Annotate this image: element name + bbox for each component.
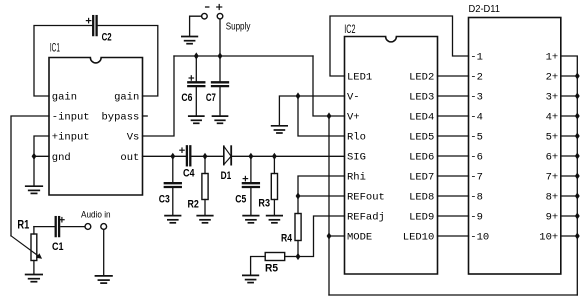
label R4 [281,233,293,245]
terminal supply minus [202,13,208,19]
capacitor C1 [56,217,64,236]
ground V- [272,126,288,133]
LED driver IC2 box [345,37,438,275]
label minus polarity [206,6,209,8]
svg-text:D1: D1 [221,170,232,182]
wires D2-D11 pins 2+ to 10+ to cathode rail [561,76,578,236]
wire supply rail [174,55,313,57]
label Audio in [81,209,111,219]
svg-text:-9: -9 [470,212,483,224]
wire bottom rail [329,294,577,296]
ground supply minus [182,37,198,44]
wire supply minus to ground [190,16,202,36]
svg-text:-2: -2 [470,72,483,84]
junction rail C7 [218,52,223,59]
svg-text:R2: R2 [188,199,199,211]
D2-D11 left pin labels -1 to -10 [470,52,489,244]
svg-text:Vs: Vs [127,132,140,144]
svg-text:gain: gain [52,92,77,104]
IC2 right pin labels LED2-LED10 [403,72,435,244]
svg-text:LED5: LED5 [409,132,434,144]
diode D1 [224,146,231,164]
label C1 [52,241,64,253]
label C3 [159,194,170,206]
wire IC1 gain-left to C2 [34,26,93,97]
svg-text:9+: 9+ [546,212,559,224]
terminal audio-in signal [85,224,91,230]
svg-text:-input: -input [52,112,90,124]
svg-text:LED2: LED2 [409,72,434,84]
svg-text:1+: 1+ [546,52,559,64]
svg-text:C6: C6 [181,92,192,104]
wire MODE node down to bottom rail [328,116,330,295]
label C2 [102,32,112,44]
wire rail to IC1 Vs [143,56,175,136]
resistor R3 [271,156,277,215]
label D1 [221,170,232,182]
label plus polarity [217,5,222,10]
svg-text:6+: 6+ [546,152,559,164]
svg-text:bypass: bypass [101,112,139,124]
svg-text:IC2: IC2 [344,22,355,36]
svg-text:V+: V+ [347,112,360,124]
junction MODE node [327,232,332,239]
D2-D11 right pin labels 1+ to 10+ [539,52,558,244]
terminal audio-in return [101,224,107,230]
ground R1 [26,275,43,282]
junction R2 node [203,153,208,160]
svg-text:C3: C3 [159,194,170,206]
junctions on cathode rail [575,72,580,239]
svg-text:out: out [120,152,139,164]
junction V+ MODE node [327,112,332,119]
wire supply plus to rail [219,19,221,56]
svg-text:-7: -7 [470,172,483,184]
wire C4 to D1 [191,155,224,157]
wire IC2 LED1 to D2-D11 pin -1 [330,16,469,76]
capacitor C7 [212,56,228,116]
ground C7 [213,116,228,123]
svg-text:SIG: SIG [347,152,366,164]
label IC1 [50,41,60,55]
wire R1 top to C1 [34,226,55,228]
label R2 [188,199,199,211]
junction R3 node [272,153,277,160]
wire D1 to IC2 SIG [231,155,344,157]
svg-text:C7: C7 [206,92,216,104]
IC1 bypass pin tick [143,115,148,117]
IC1 left pin labels gain -input +input gnd [52,92,90,164]
svg-text:R4: R4 [281,233,293,245]
svg-text:LED4: LED4 [409,112,434,124]
capacitor C5 [243,156,259,215]
svg-text:8+: 8+ [546,192,559,204]
svg-text:IC1: IC1 [50,41,60,55]
op-amp IC1 amplifier box [49,58,143,196]
svg-text:Audio in: Audio in [81,209,111,219]
label C5 [235,194,246,206]
svg-text:LED3: LED3 [409,92,434,104]
svg-text:LED9: LED9 [409,212,434,224]
label D2-D11 [469,4,501,15]
label IC2 [344,22,355,36]
svg-text:2+: 2+ [546,72,559,84]
wire C2 to IC1 gain-right [98,26,158,97]
junction REFout node [296,192,301,199]
ground C3 [165,216,181,223]
wires IC2 LED2-LED10 to D2-D11 pins -2 to -10 [438,76,469,236]
ground C5 [243,216,259,223]
svg-text:-1: -1 [470,52,483,64]
svg-text:C5: C5 [235,194,246,206]
LED block D2-D11 box [469,18,561,275]
ground R5 [243,275,259,282]
resistor R5 [251,253,298,276]
wire IC2 REFout [298,195,345,197]
svg-text:MODE: MODE [347,232,372,244]
svg-text:-10: -10 [470,232,489,244]
junction R4 R5 REFadj node [296,253,301,260]
ground IC1 gnd [26,186,43,193]
wire C1 to audio terminal [61,226,85,228]
wire IC2 Rlo to V- node [298,96,345,136]
svg-text:+input: +input [52,132,90,144]
junction V- Rlo node [296,92,301,99]
wire IC1 +input down [34,136,49,156]
svg-text:-5: -5 [470,132,483,144]
label C7 [206,92,216,104]
svg-text:R5: R5 [265,263,278,275]
svg-text:D2-D11: D2-D11 [469,4,501,15]
IC1 right pin labels gain bypass Vs out [101,92,139,164]
capacitor C3 [165,156,181,215]
svg-text:LED8: LED8 [409,192,434,204]
label R5 [265,263,278,275]
wire IC2 V- to ground [279,96,344,126]
label R1 [17,218,29,232]
svg-text:-4: -4 [470,112,483,124]
svg-text:Supply: Supply [226,21,251,32]
svg-text:10+: 10+ [539,232,558,244]
svg-text:-8: -8 [470,192,483,204]
terminal supply plus [217,13,223,19]
junction IC1 gnd node [32,153,37,160]
svg-text:REFout: REFout [347,192,385,204]
capacitor C4 [180,146,191,165]
svg-text:R1: R1 [17,218,29,232]
capacitor C6 [188,56,204,116]
svg-text:7+: 7+ [546,172,559,184]
capacitor C2 [86,16,96,35]
wire IC2 REFadj to R4 R5 node [298,216,345,257]
svg-text:LED10: LED10 [403,232,435,244]
svg-text:LED7: LED7 [409,172,434,184]
svg-text:LED1: LED1 [347,72,372,84]
wire gnd node to ground [33,156,35,186]
wire IC2 MODE [329,235,345,237]
label R3 [258,198,270,210]
junction out C3 node [170,153,175,160]
wire IC2 Rhi to REFout node [298,176,345,196]
wire audio return to ground [103,229,105,275]
IC2 left pin labels LED1 V- V+ Rlo SIG Rhi REFout REFadj MODE [347,72,385,244]
resistor R4 [295,196,301,257]
svg-text:V-: V- [347,92,360,104]
junction C5 node [249,153,254,160]
svg-text:Rhi: Rhi [347,172,366,184]
label Supply [226,21,251,32]
ground C6 [189,116,204,123]
svg-text:gnd: gnd [52,152,71,164]
wire IC1 out to C4 [143,155,188,157]
svg-text:REFadj: REFadj [347,212,385,224]
ground R2 [197,216,213,223]
svg-text:Rlo: Rlo [347,132,366,144]
ground audio-in [95,276,112,283]
wire IC2 V+ to rail [313,56,345,116]
svg-text:C4: C4 [183,168,195,180]
label C6 [181,92,192,104]
ground R3 [267,216,283,223]
svg-text:LED6: LED6 [409,152,434,164]
wire IC1 -input to R1 wiper [11,116,49,236]
label C4 [183,168,195,180]
svg-text:C1: C1 [52,241,64,253]
svg-text:R3: R3 [258,198,270,210]
svg-text:3+: 3+ [546,92,559,104]
wire IC1 gnd [34,155,49,157]
potentiometer R1 [11,227,41,275]
svg-text:gain: gain [114,92,139,104]
svg-text:C2: C2 [102,32,112,44]
resistor R2 [202,156,208,215]
junction rail C6 [194,52,199,59]
svg-text:-6: -6 [470,152,483,164]
wire LED cathode rail [561,56,578,295]
svg-text:4+: 4+ [546,112,559,124]
svg-text:-3: -3 [470,92,483,104]
svg-text:5+: 5+ [546,132,559,144]
